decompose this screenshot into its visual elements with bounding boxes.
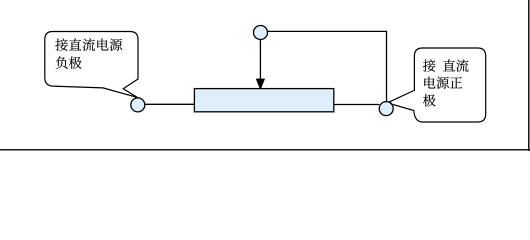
callout bubble: right (positive terminal label) bbox=[390, 48, 486, 122]
arrowhead (wiper contact) bbox=[256, 79, 265, 90]
callout bubble: left (negative terminal label) bbox=[45, 32, 138, 98]
resistor (rheostat) body R1 bbox=[194, 89, 333, 112]
wire: top terminal to right node (horizontal + vertical) bbox=[268, 31, 387, 101]
terminal: left node circle bbox=[131, 98, 145, 112]
wire: resistor to right node bbox=[334, 104, 380, 106]
wire: left node to resistor bbox=[145, 103, 195, 105]
wire: top terminal down to wiper arrow bbox=[259, 40, 261, 81]
label text: 接直流电源 / 负极 bbox=[55, 38, 122, 69]
terminal: top circle (wiper) bbox=[254, 26, 268, 40]
frame right border bbox=[528, 0, 530, 151]
terminal: right node circle bbox=[379, 102, 393, 116]
frame bottom border bbox=[0, 149, 530, 151]
label text: 接 直流 / 电源正 / 极 bbox=[423, 59, 469, 106]
